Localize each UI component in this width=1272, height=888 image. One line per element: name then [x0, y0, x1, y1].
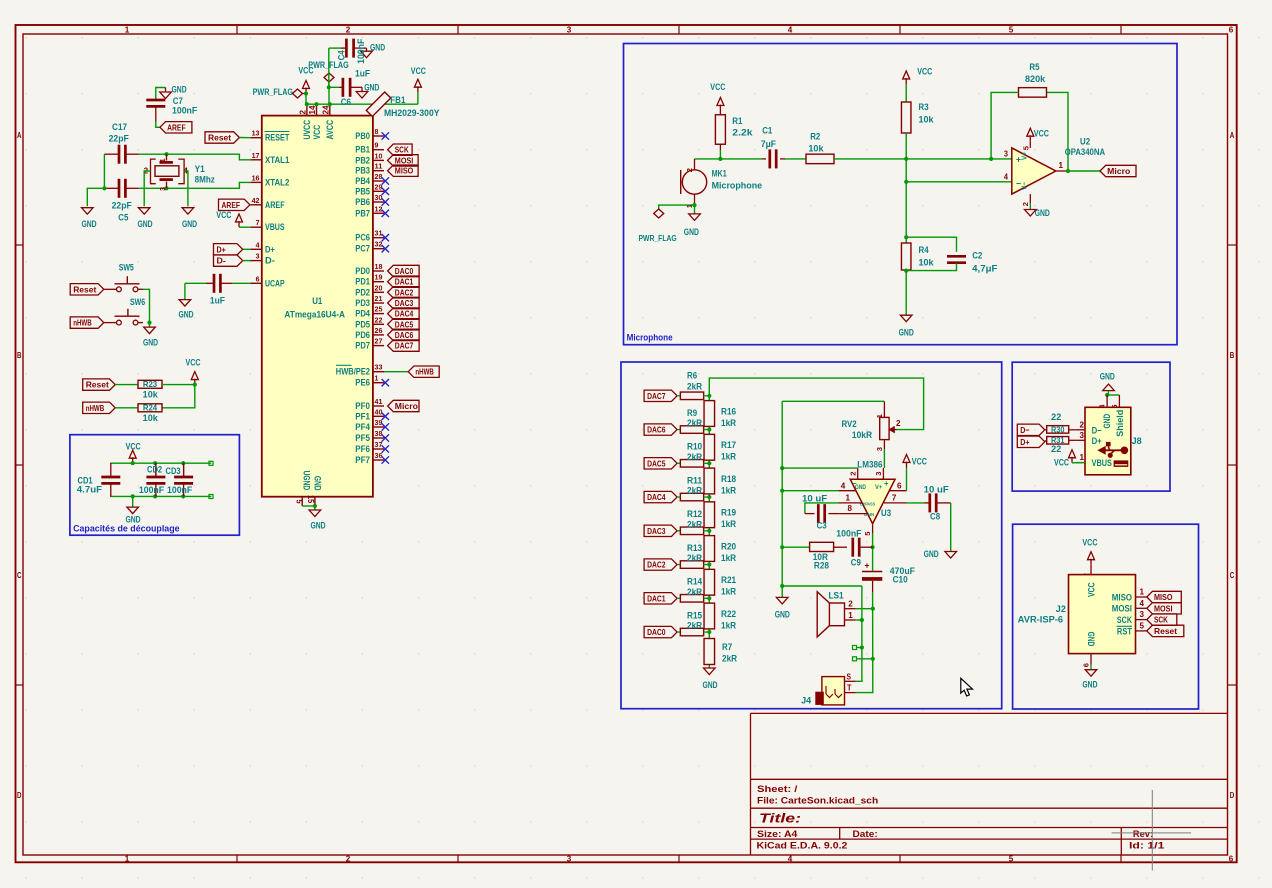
svg-text:DAC2: DAC2 — [647, 560, 666, 570]
svg-text:VCC: VCC — [1082, 538, 1097, 548]
svg-text:GND: GND — [125, 515, 140, 525]
svg-text:19: 19 — [375, 273, 383, 282]
svg-text:nHWB: nHWB — [73, 318, 92, 328]
svg-text:4: 4 — [256, 240, 261, 249]
svg-text:C4: C4 — [337, 50, 347, 60]
svg-text:GND: GND — [855, 484, 866, 491]
svg-text:5: 5 — [863, 532, 872, 536]
svg-text:DAC4: DAC4 — [395, 309, 414, 319]
svg-text:U3: U3 — [881, 508, 891, 518]
svg-text:GAIN: GAIN — [864, 512, 874, 517]
svg-text:42: 42 — [252, 196, 260, 205]
svg-text:1kR: 1kR — [721, 620, 737, 630]
svg-text:32: 32 — [375, 240, 383, 249]
svg-text:10k: 10k — [919, 258, 935, 268]
svg-text:AREF: AREF — [167, 122, 186, 132]
svg-text:R30: R30 — [1051, 425, 1065, 434]
svg-text:PC7: PC7 — [355, 244, 370, 254]
svg-text:R13: R13 — [687, 543, 702, 553]
svg-text:22: 22 — [1051, 444, 1061, 454]
svg-text:5: 5 — [1140, 621, 1145, 630]
svg-text:PD5: PD5 — [355, 319, 370, 329]
svg-text:LS1: LS1 — [829, 591, 844, 601]
svg-text:VBUS: VBUS — [265, 222, 285, 232]
svg-text:OPA340NA: OPA340NA — [1065, 147, 1106, 157]
svg-text:D+: D+ — [265, 244, 275, 254]
svg-text:Reset: Reset — [73, 284, 96, 294]
svg-text:PD4: PD4 — [355, 309, 370, 319]
svg-text:36: 36 — [375, 451, 383, 460]
svg-text:PF6: PF6 — [355, 444, 370, 454]
svg-text:24: 24 — [321, 105, 330, 115]
svg-text:GND: GND — [1035, 208, 1050, 218]
svg-text:9: 9 — [375, 141, 379, 150]
svg-text:GND: GND — [364, 82, 379, 92]
svg-text:SW6: SW6 — [130, 297, 145, 307]
svg-text:25: 25 — [375, 305, 384, 314]
svg-text:DAC2: DAC2 — [395, 287, 414, 297]
svg-text:Reset: Reset — [86, 380, 109, 390]
svg-text:22pF: 22pF — [109, 134, 130, 144]
svg-text:GND: GND — [684, 227, 699, 237]
svg-text:C6: C6 — [341, 97, 351, 107]
svg-text:PB1: PB1 — [355, 145, 370, 155]
svg-text:D+: D+ — [1020, 437, 1029, 447]
svg-text:4: 4 — [788, 854, 793, 863]
svg-text:VCC: VCC — [411, 66, 426, 76]
svg-text:ATmega16U4-A: ATmega16U4-A — [284, 310, 345, 320]
svg-text:2: 2 — [298, 109, 307, 114]
svg-text:PF1: PF1 — [355, 411, 370, 421]
svg-text:PE6: PE6 — [355, 378, 370, 388]
svg-text:10kR: 10kR — [852, 430, 873, 440]
svg-text:J4: J4 — [801, 696, 811, 706]
svg-text:SCK: SCK — [1117, 615, 1132, 625]
svg-text:MOSI: MOSI — [395, 155, 414, 165]
svg-text:1: 1 — [375, 374, 380, 383]
svg-text:10 uF: 10 uF — [802, 494, 828, 504]
svg-text:DAC0: DAC0 — [395, 266, 414, 276]
svg-text:2kR: 2kR — [687, 621, 703, 631]
svg-text:D−: D− — [1092, 425, 1102, 435]
svg-text:AVCC: AVCC — [325, 119, 335, 139]
svg-text:100nF: 100nF — [836, 529, 862, 539]
svg-text:R12: R12 — [687, 509, 702, 519]
svg-text:+: + — [884, 479, 889, 488]
svg-text:Micro: Micro — [1107, 166, 1130, 176]
svg-text:DAC3: DAC3 — [647, 526, 666, 536]
svg-text:29: 29 — [375, 182, 383, 191]
svg-text:DAC7: DAC7 — [395, 341, 414, 351]
svg-text:GND: GND — [924, 549, 939, 559]
svg-text:2: 2 — [896, 419, 901, 428]
svg-text:2: 2 — [1021, 202, 1030, 206]
svg-text:KiCad E.D.A. 9.0.2: KiCad E.D.A. 9.0.2 — [757, 841, 848, 851]
svg-text:R3: R3 — [919, 102, 929, 112]
svg-text:GND: GND — [81, 219, 96, 229]
svg-text:A: A — [17, 131, 22, 140]
svg-text:Shield: Shield — [1115, 410, 1125, 437]
svg-text:3: 3 — [567, 854, 572, 863]
svg-text:6: 6 — [897, 481, 902, 490]
svg-text:2kR: 2kR — [722, 654, 738, 664]
svg-text:File: CarteSon.kicad_sch: File: CarteSon.kicad_sch — [757, 795, 878, 805]
svg-text:R6: R6 — [687, 371, 697, 381]
svg-text:PF7: PF7 — [355, 455, 370, 465]
svg-text:DAC0: DAC0 — [647, 627, 666, 637]
svg-text:R17: R17 — [721, 440, 736, 450]
svg-text:6: 6 — [1082, 663, 1091, 667]
svg-text:nHWB: nHWB — [86, 403, 105, 413]
svg-text:HWB/PE2: HWB/PE2 — [336, 367, 370, 377]
svg-text:1: 1 — [846, 494, 851, 503]
svg-text:C17: C17 — [112, 122, 127, 132]
svg-text:PF5: PF5 — [355, 433, 370, 443]
svg-text:2kR: 2kR — [687, 519, 703, 529]
svg-text:MH2029-300Y: MH2029-300Y — [384, 108, 440, 118]
svg-text:5: 5 — [1009, 25, 1014, 34]
svg-text:6: 6 — [1229, 25, 1234, 34]
svg-text:37: 37 — [375, 440, 383, 449]
svg-text:VCC: VCC — [312, 124, 322, 139]
svg-text:R7: R7 — [722, 642, 732, 652]
svg-text:7μF: 7μF — [761, 139, 777, 149]
svg-text:LM386: LM386 — [857, 459, 882, 469]
svg-text:Micro: Micro — [395, 401, 418, 411]
svg-text:GND: GND — [310, 521, 325, 531]
svg-text:R15: R15 — [687, 610, 702, 620]
svg-text:20: 20 — [375, 283, 383, 292]
svg-text:GND: GND — [143, 338, 158, 348]
svg-text:GND: GND — [702, 680, 717, 690]
svg-text:3: 3 — [256, 252, 260, 261]
svg-text:GND: GND — [1086, 632, 1096, 647]
svg-text:3: 3 — [1140, 610, 1145, 619]
svg-text:PWR_FLAG: PWR_FLAG — [253, 87, 293, 97]
svg-text:C10: C10 — [893, 575, 908, 585]
svg-text:RST: RST — [1117, 626, 1133, 636]
svg-text:PF4: PF4 — [355, 422, 370, 432]
svg-text:6: 6 — [256, 274, 260, 283]
svg-text:40: 40 — [375, 407, 383, 416]
svg-text:100nF: 100nF — [167, 485, 193, 495]
svg-text:GND: GND — [312, 476, 322, 491]
svg-text:Reset: Reset — [1154, 626, 1177, 636]
svg-text:Capacités de découplage: Capacités de découplage — [73, 523, 180, 533]
svg-text:PB4: PB4 — [355, 176, 370, 186]
svg-text:1: 1 — [1059, 161, 1064, 170]
svg-text:GND: GND — [178, 310, 193, 320]
svg-text:DAC5: DAC5 — [395, 319, 414, 329]
svg-text:R11: R11 — [687, 475, 702, 485]
svg-text:CD3: CD3 — [166, 466, 181, 476]
svg-text:D+: D+ — [1092, 436, 1102, 446]
svg-text:3: 3 — [874, 472, 883, 476]
svg-text:B: B — [1230, 351, 1235, 360]
svg-text:1: 1 — [160, 158, 167, 162]
svg-text:10: 10 — [375, 151, 383, 160]
svg-text:GND: GND — [775, 610, 790, 620]
svg-text:1: 1 — [125, 854, 130, 863]
svg-text:DAC5: DAC5 — [647, 458, 666, 468]
svg-text:Microphone: Microphone — [627, 333, 673, 343]
svg-text:R18: R18 — [721, 474, 736, 484]
svg-text:R4: R4 — [919, 245, 929, 255]
svg-text:U2: U2 — [1080, 137, 1090, 147]
svg-text:8: 8 — [375, 127, 380, 136]
svg-text:D−: D− — [1020, 425, 1029, 435]
svg-text:R14: R14 — [687, 577, 702, 587]
svg-text:C2: C2 — [972, 251, 982, 261]
svg-text:2kR: 2kR — [687, 553, 703, 563]
svg-text:1kR: 1kR — [721, 485, 737, 495]
svg-text:VCC: VCC — [1034, 129, 1049, 139]
svg-text:GND: GND — [1082, 680, 1097, 690]
svg-text:26: 26 — [375, 326, 383, 335]
svg-text:R23: R23 — [143, 379, 158, 389]
svg-text:13: 13 — [252, 129, 260, 138]
svg-text:10k: 10k — [143, 413, 159, 423]
svg-text:11: 11 — [375, 162, 384, 171]
svg-text:100nF: 100nF — [172, 106, 198, 116]
svg-text:MISO: MISO — [1154, 592, 1173, 602]
svg-text:R24: R24 — [143, 403, 158, 413]
svg-text:PB2: PB2 — [355, 155, 370, 165]
svg-text:8Mhz: 8Mhz — [195, 175, 216, 185]
svg-text:3: 3 — [875, 447, 884, 451]
svg-text:4: 4 — [788, 25, 793, 34]
svg-text:17: 17 — [252, 151, 260, 160]
svg-text:Y1: Y1 — [195, 164, 205, 174]
svg-text:28: 28 — [375, 172, 384, 181]
svg-text:Microphone: Microphone — [712, 181, 763, 191]
svg-text:GND: GND — [899, 328, 914, 338]
svg-text:Id: 1/1: Id: 1/1 — [1129, 841, 1164, 851]
svg-text:Date:: Date: — [853, 829, 878, 839]
svg-text:7: 7 — [892, 494, 897, 503]
svg-text:38: 38 — [375, 429, 384, 438]
svg-text:VCC: VCC — [1086, 582, 1096, 597]
svg-text:3: 3 — [567, 25, 572, 34]
svg-text:R1: R1 — [732, 116, 742, 126]
svg-text:AREF: AREF — [222, 200, 241, 210]
svg-text:MK1: MK1 — [712, 169, 727, 179]
svg-text:PD1: PD1 — [355, 277, 370, 287]
svg-text:C1: C1 — [762, 126, 772, 136]
svg-text:R21: R21 — [721, 575, 736, 585]
svg-text:1: 1 — [1080, 453, 1085, 462]
svg-text:R20: R20 — [721, 541, 736, 551]
svg-text:MISO: MISO — [1112, 592, 1132, 602]
svg-text:2: 2 — [849, 472, 858, 476]
svg-text:GND: GND — [1102, 414, 1112, 429]
svg-text:FB1: FB1 — [390, 95, 405, 105]
svg-text:DAC3: DAC3 — [395, 298, 414, 308]
svg-text:2: 2 — [346, 854, 351, 863]
svg-text:PD2: PD2 — [355, 287, 370, 297]
svg-text:C: C — [1230, 571, 1235, 580]
svg-text:J2: J2 — [1056, 604, 1066, 614]
svg-text:CD2: CD2 — [147, 464, 162, 474]
svg-text:2: 2 — [346, 25, 351, 34]
svg-text:VCC: VCC — [1054, 457, 1069, 467]
svg-text:C9: C9 — [851, 558, 861, 568]
svg-text:14: 14 — [308, 105, 317, 115]
svg-text:DAC4: DAC4 — [647, 492, 666, 502]
svg-text:5: 5 — [1009, 854, 1014, 863]
svg-text:18: 18 — [375, 262, 384, 271]
svg-text:100nF: 100nF — [356, 38, 366, 64]
svg-text:C5: C5 — [118, 213, 128, 223]
svg-text:R2: R2 — [810, 132, 820, 142]
svg-text:1uF: 1uF — [210, 296, 226, 306]
svg-text:V−: V− — [1022, 182, 1029, 190]
svg-text:PF0: PF0 — [355, 401, 370, 411]
svg-text:10k: 10k — [143, 390, 159, 400]
svg-text:PWR_FLAG: PWR_FLAG — [639, 233, 678, 243]
svg-text:PB0: PB0 — [355, 131, 370, 141]
svg-text:VCC: VCC — [216, 210, 231, 220]
svg-text:39: 39 — [375, 418, 383, 427]
svg-text:3: 3 — [160, 187, 167, 191]
svg-text:PC6: PC6 — [355, 233, 370, 243]
svg-text:DAC1: DAC1 — [395, 277, 414, 287]
svg-text:2: 2 — [1080, 420, 1085, 429]
svg-text:2kR: 2kR — [687, 382, 703, 392]
svg-text:1: 1 — [125, 25, 130, 34]
svg-text:VCC: VCC — [126, 441, 141, 451]
svg-text:C: C — [17, 571, 22, 580]
svg-text:4: 4 — [1004, 173, 1009, 182]
svg-text:VBUS: VBUS — [1092, 458, 1112, 468]
svg-text:8: 8 — [848, 504, 853, 513]
svg-text:27: 27 — [375, 337, 383, 346]
svg-text:J8: J8 — [1132, 436, 1142, 446]
svg-text:U1: U1 — [312, 296, 322, 306]
svg-text:22pF: 22pF — [112, 201, 133, 211]
svg-text:PD6: PD6 — [355, 330, 370, 340]
svg-text:DAC1: DAC1 — [647, 593, 666, 603]
svg-text:UVCC: UVCC — [302, 119, 312, 139]
svg-text:1uF: 1uF — [355, 69, 371, 79]
svg-text:R16: R16 — [721, 406, 736, 416]
svg-text:7: 7 — [256, 218, 260, 227]
svg-text:B: B — [17, 351, 22, 360]
svg-text:VCC: VCC — [912, 457, 927, 467]
svg-text:D-: D- — [217, 256, 226, 266]
svg-text:UCAP: UCAP — [265, 278, 285, 288]
svg-text:22: 22 — [375, 315, 383, 324]
svg-text:2kR: 2kR — [687, 452, 703, 462]
svg-text:UGND: UGND — [301, 471, 311, 491]
svg-text:D+: D+ — [217, 244, 226, 254]
svg-text:R22: R22 — [721, 609, 736, 619]
svg-text:1kR: 1kR — [721, 587, 737, 597]
svg-text:R9: R9 — [687, 408, 697, 418]
svg-text:MISO: MISO — [395, 166, 414, 176]
svg-text:2kR: 2kR — [687, 418, 703, 428]
svg-text:2.2k: 2.2k — [732, 128, 753, 138]
svg-text:R5: R5 — [1029, 62, 1039, 72]
svg-text:1: 1 — [848, 611, 853, 620]
svg-text:S: S — [847, 673, 852, 682]
svg-text:XTAL1: XTAL1 — [265, 155, 289, 165]
svg-text:1: 1 — [1140, 588, 1145, 597]
svg-text:16: 16 — [252, 173, 260, 182]
svg-text:6: 6 — [1229, 854, 1234, 863]
svg-text:PB7: PB7 — [355, 208, 370, 218]
svg-text:22: 22 — [1051, 412, 1061, 422]
svg-text:3: 3 — [1080, 431, 1085, 440]
svg-text:+: + — [1016, 155, 1021, 165]
svg-text:1kR: 1kR — [721, 418, 737, 428]
svg-text:V+: V+ — [875, 484, 882, 491]
svg-text:C8: C8 — [930, 512, 940, 522]
svg-text:PB6: PB6 — [355, 197, 370, 207]
svg-text:D: D — [1230, 791, 1235, 800]
svg-text:T: T — [847, 683, 852, 692]
svg-text:Size: A4: Size: A4 — [757, 829, 797, 839]
svg-text:V+: V+ — [1022, 152, 1029, 160]
svg-text:5: 5 — [295, 500, 304, 505]
svg-text:A: A — [1230, 131, 1235, 140]
svg-text:21: 21 — [375, 294, 384, 303]
svg-text:SCK: SCK — [1154, 615, 1169, 625]
svg-text:10k: 10k — [919, 115, 935, 125]
svg-text:GND: GND — [137, 219, 152, 229]
svg-text:SW5: SW5 — [119, 263, 134, 273]
svg-text:DAC7: DAC7 — [647, 391, 666, 401]
svg-text:Rev:: Rev: — [1133, 829, 1153, 839]
svg-text:GND: GND — [1100, 372, 1115, 382]
svg-text:R19: R19 — [721, 508, 736, 518]
svg-text:RV2: RV2 — [842, 419, 857, 429]
svg-text:4.7uF: 4.7uF — [77, 485, 103, 495]
svg-text:AVR-ISP-6: AVR-ISP-6 — [1018, 615, 1063, 625]
svg-text:2kR: 2kR — [687, 587, 703, 597]
svg-text:D-: D- — [265, 256, 275, 266]
svg-text:−: − — [852, 479, 857, 488]
svg-text:AREF: AREF — [265, 200, 285, 210]
svg-text:XTAL2: XTAL2 — [265, 177, 289, 187]
svg-text:1kR: 1kR — [721, 519, 737, 529]
svg-text:12: 12 — [375, 204, 383, 213]
svg-text:5: 5 — [1022, 146, 1031, 150]
svg-text:4: 4 — [841, 481, 846, 490]
svg-text:nHWB: nHWB — [415, 367, 434, 377]
svg-text:MOSI: MOSI — [1154, 603, 1173, 613]
svg-text:PD7: PD7 — [355, 341, 370, 351]
svg-text:4: 4 — [1140, 599, 1145, 608]
svg-text:VCC: VCC — [917, 67, 932, 77]
svg-text:MOSI: MOSI — [1112, 604, 1132, 614]
svg-text:VCC: VCC — [186, 358, 201, 368]
svg-text:2: 2 — [848, 600, 853, 609]
svg-text:DAC6: DAC6 — [647, 425, 666, 435]
svg-text:PD0: PD0 — [355, 266, 370, 276]
svg-text:R10: R10 — [687, 442, 702, 452]
svg-text:41: 41 — [375, 397, 384, 406]
svg-text:820k: 820k — [1025, 74, 1046, 84]
svg-text:GND: GND — [370, 43, 385, 53]
svg-text:Title:: Title: — [759, 812, 801, 826]
svg-text:33: 33 — [375, 363, 383, 372]
svg-text:4,7μF: 4,7μF — [972, 264, 998, 274]
svg-text:100nF: 100nF — [139, 485, 165, 495]
svg-text:1kR: 1kR — [721, 452, 737, 462]
svg-text:10 uF: 10 uF — [924, 485, 950, 495]
svg-text:30: 30 — [375, 193, 383, 202]
